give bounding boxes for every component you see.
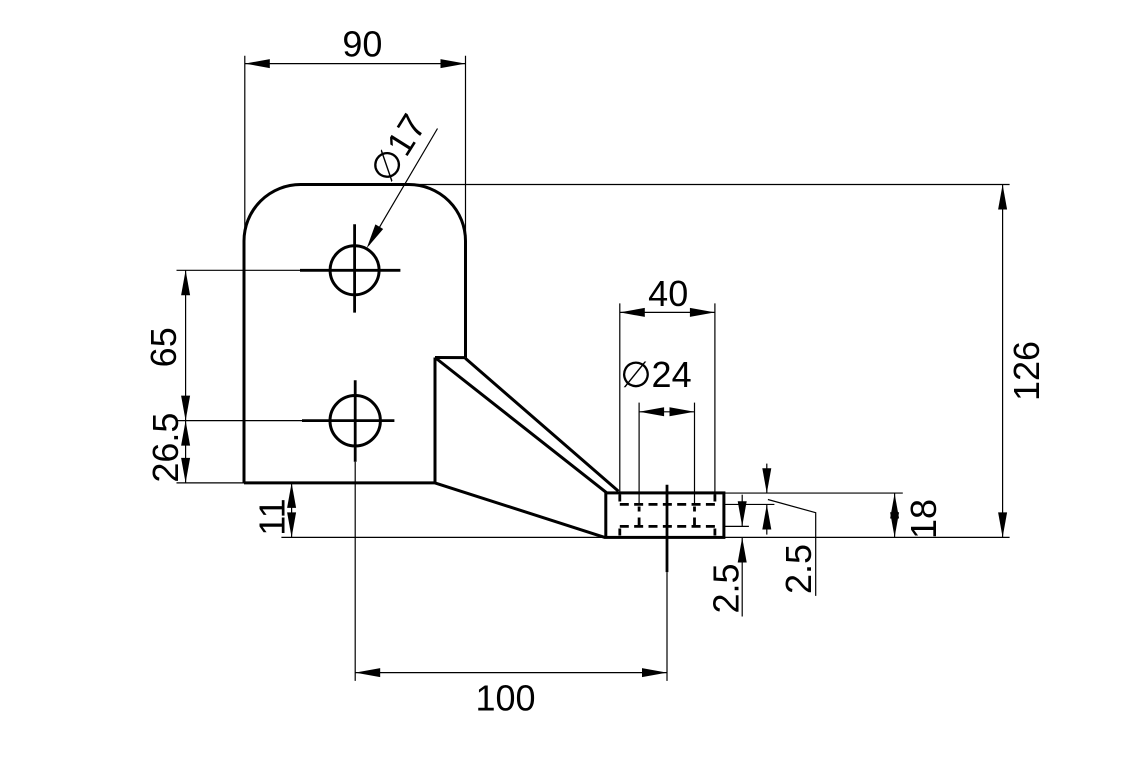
svg-text:100: 100 [475,677,535,718]
90 dimension line [245,63,466,65]
arrow 2.5b up [762,505,771,530]
diameter 24 extension left [638,403,640,505]
90 extension right [465,56,467,240]
top edge extension to 126 dim [409,184,1010,186]
hidden edge left bottom [618,529,621,536]
126 dimension line [1002,185,1004,538]
svg-text:∅24: ∅24 [620,354,691,395]
hidden line bottom [620,525,715,528]
svg-text:126: 126 [1006,341,1047,401]
arrow 2.5a down [738,501,747,526]
hidden bore lines (dashed) [620,495,715,536]
2.5 second leader [768,500,816,596]
hole H2 [330,396,380,446]
hidden bore left [638,507,641,526]
hole H2 horizontal centerline [302,419,394,422]
arrowheads [181,59,1007,677]
18 dimension line [894,494,896,538]
arrow 2.5b down [762,468,771,493]
arrow 18 bottom [890,512,899,537]
90 extension left [244,56,246,240]
hidden edge right bottom [714,529,717,536]
boss top edge extension right [724,492,903,494]
arrow 100 left [355,668,380,677]
hidden edge right top [714,495,717,502]
2.5 first dim line upper [741,495,743,527]
11 dimension line [291,483,293,538]
hole H2 vertical centerline [354,380,357,461]
boss cylinder body [606,493,724,538]
hidden edge left top [618,495,621,502]
hidden bore right [693,507,696,526]
2.5 second dim line lower [766,505,768,535]
arrow 40 right [690,308,715,317]
bottom line extension (full) [281,536,1009,538]
65 and 26.5 dimension line [185,270,187,483]
arrow d24 left [639,407,664,416]
lower slope edge [435,483,605,538]
arrow 2.5a up [738,538,747,563]
arrow 26.5 bottom [181,458,190,483]
arrow 18 top [890,494,899,519]
arrow 90 right [441,59,466,68]
arrow 11 bottom [287,512,296,537]
40 dimension line [620,311,715,313]
centerlines [300,224,667,572]
40 extension right [714,303,716,496]
boss vertical centerline [666,485,669,572]
arrow 126 bottom [998,512,1007,537]
diameter 24 dimension line [639,411,694,413]
arrow d24 right [670,407,695,416]
hole H1 horizontal centerline [300,269,400,272]
svg-text:90: 90 [342,23,382,64]
100 extension right [666,572,668,681]
arrow 40 left [620,308,645,317]
arrow 100 right [642,668,667,677]
diameter 24 extension right [694,403,696,505]
svg-text:18: 18 [903,499,944,539]
100 extension left [354,462,356,681]
plate bottom edge extension left [177,482,245,484]
arrow d17 leader [363,224,383,250]
hidden top extension right [724,503,775,505]
arrow 65 bottom [181,396,190,421]
svg-text:2.5: 2.5 [706,563,747,613]
svg-text:40: 40 [648,273,688,314]
rib top edge [435,356,466,359]
arrow 11 top [287,483,296,508]
hole H1 vertical centerline [353,224,356,312]
40 extension left [619,303,621,496]
thin extension lines [177,56,1010,681]
2.5 second dim line upper [766,464,768,494]
hole H1 centerline extension left [177,269,303,271]
rib diagonal front [435,358,606,493]
arrow 90 left [245,59,270,68]
2.5 first dim line lower [741,538,743,617]
rib left edge [434,358,437,483]
hole H2 centerline extension left [177,420,305,422]
plate bottom edge [244,481,435,484]
svg-text:11: 11 [251,498,292,535]
svg-text:65: 65 [143,327,184,367]
svg-text:2.5: 2.5 [778,544,819,594]
100 dimension line [355,672,667,674]
hidden bottom extension right [724,525,749,527]
plate outline [244,185,724,538]
arrow 126 top [998,185,1007,210]
arrow 65 top [181,270,190,295]
hidden line top [620,503,715,506]
hole H1 (Ø17) [330,246,379,295]
svg-text:26.5: 26.5 [145,413,186,483]
diameter 17 leader line [369,129,438,246]
rib diagonal back [465,358,618,491]
arrow 26.5 top [181,421,190,446]
